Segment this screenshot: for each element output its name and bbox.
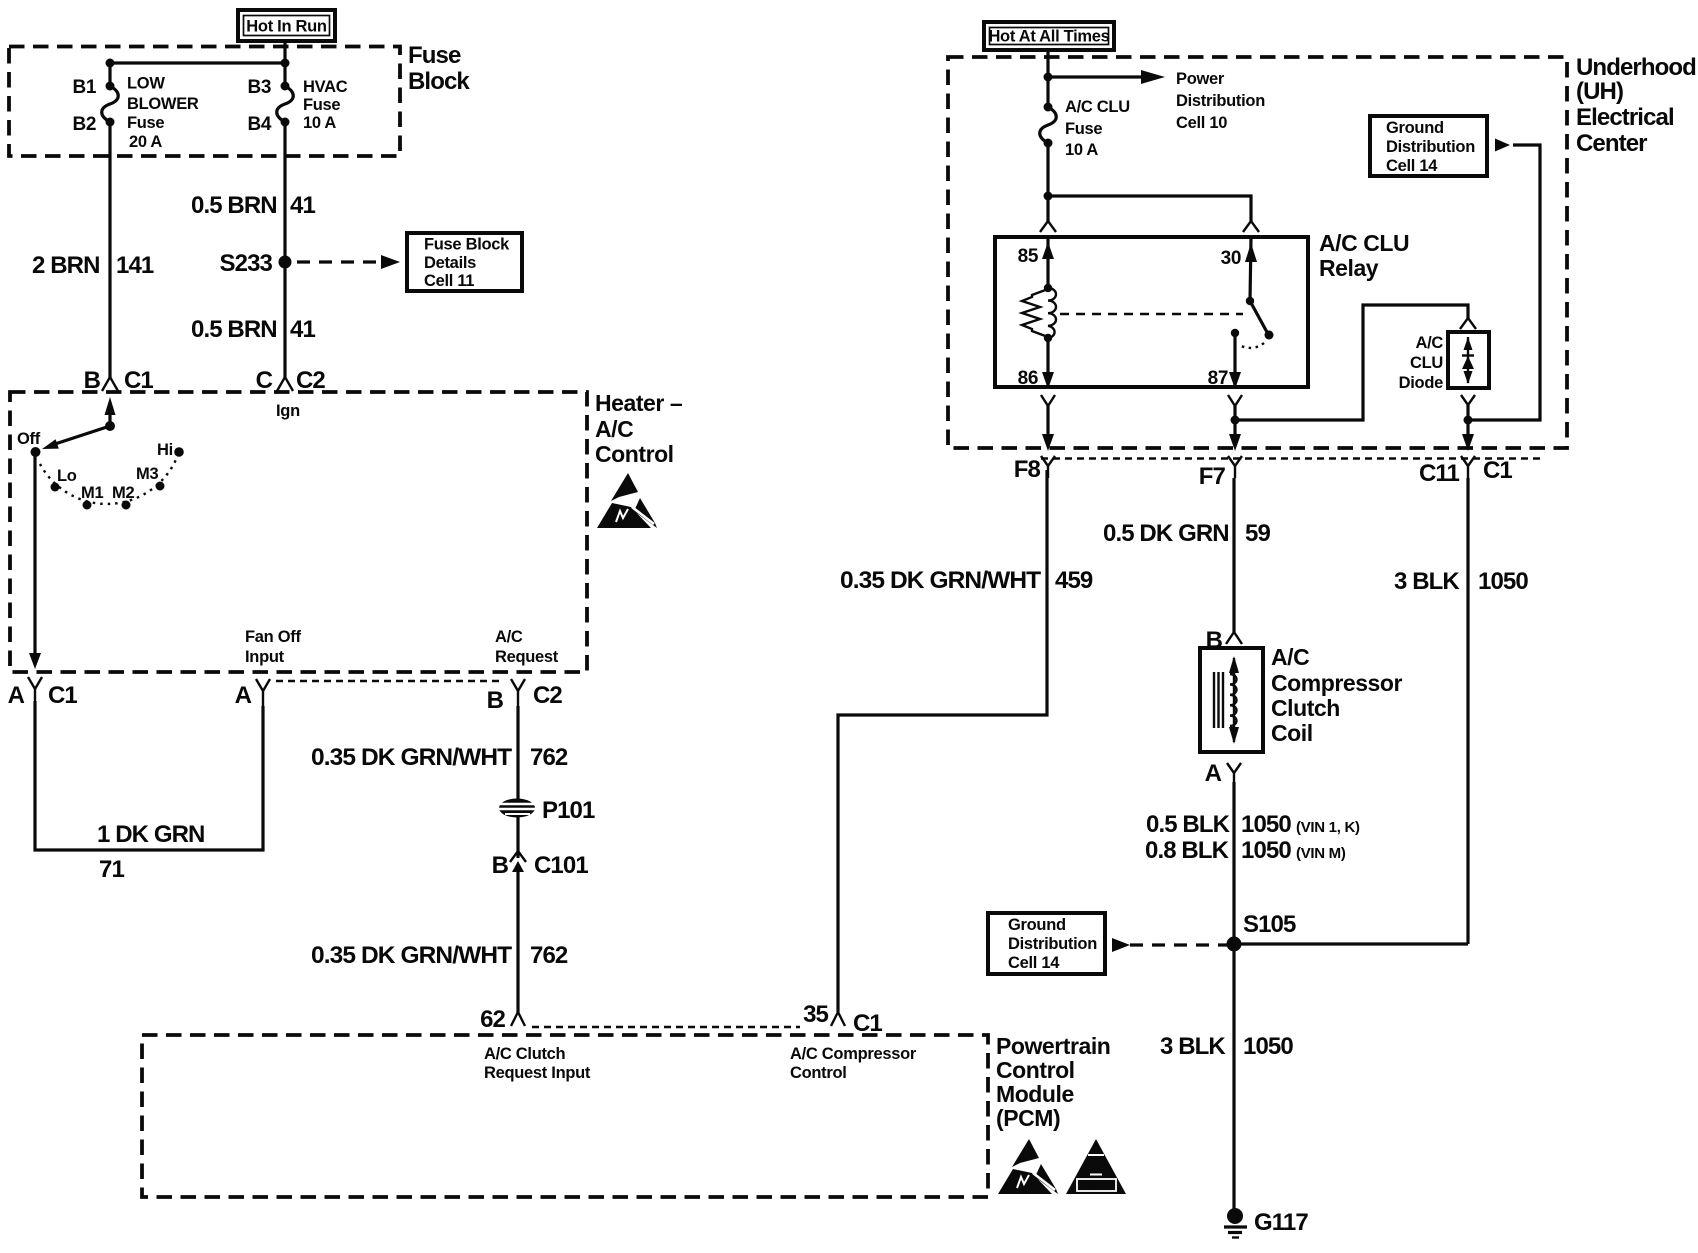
svg-text:459: 459 xyxy=(1055,567,1093,594)
svg-text:Distribution: Distribution xyxy=(1176,92,1265,110)
svg-text:F8: F8 xyxy=(1014,456,1041,483)
svg-text:59: 59 xyxy=(1245,520,1270,547)
underhood electrical center dashed box xyxy=(948,57,1567,448)
svg-text:A/C Clutch: A/C Clutch xyxy=(484,1045,566,1063)
svg-text:Electrical: Electrical xyxy=(1576,104,1674,131)
relay pin 85 with up arrow xyxy=(1018,237,1054,288)
svg-text:M1: M1 xyxy=(81,484,103,502)
heater a/c control dashed box xyxy=(10,392,587,672)
svg-text:C1: C1 xyxy=(48,682,77,709)
relay pin 30 with up arrow and switch arm xyxy=(1221,237,1274,348)
svg-text:G117: G117 xyxy=(1254,1209,1308,1236)
svg-text:A/C CLU: A/C CLU xyxy=(1065,98,1130,116)
svg-text:B4: B4 xyxy=(248,114,272,135)
svg-text:B3: B3 xyxy=(248,77,272,98)
svg-text:41: 41 xyxy=(290,316,315,343)
svg-text:0.5 BRN: 0.5 BRN xyxy=(191,192,277,219)
svg-text:Heater –: Heater – xyxy=(595,390,683,416)
svg-text:HVAC: HVAC xyxy=(303,78,348,96)
svg-text:Ign: Ign xyxy=(276,402,300,420)
svg-text:2 BRN: 2 BRN xyxy=(32,252,100,279)
connector chevron above diode xyxy=(1460,318,1476,329)
wire B4 down to connector C2 xyxy=(283,122,286,378)
wire from Hot In Run down to fuse bus xyxy=(283,39,286,63)
svg-text:Control: Control xyxy=(996,1057,1075,1083)
svg-text:Block: Block xyxy=(408,68,470,95)
svg-text:1050: 1050 xyxy=(1243,1033,1293,1060)
svg-text:Clutch: Clutch xyxy=(1271,695,1340,721)
ESD warning icon (PCM) xyxy=(998,1139,1058,1194)
wire bus inside fuse block xyxy=(110,61,285,64)
svg-text:Ground: Ground xyxy=(1386,119,1444,137)
svg-text:0.35 DK GRN/WHT: 0.35 DK GRN/WHT xyxy=(840,567,1041,594)
connector B above coil xyxy=(1206,627,1242,654)
svg-text:Fuse: Fuse xyxy=(1065,120,1102,138)
svg-text:LOW: LOW xyxy=(127,75,165,93)
svg-text:C: C xyxy=(256,367,273,394)
svg-text:C11: C11 xyxy=(1419,460,1460,487)
relay coil with parallel resistor xyxy=(1022,284,1056,342)
svg-text:(VIN 1, K): (VIN 1, K) xyxy=(1296,819,1360,836)
svg-text:85: 85 xyxy=(1018,246,1039,267)
wire C2 down to P101 xyxy=(516,706,519,800)
svg-text:Distribution: Distribution xyxy=(1386,138,1475,156)
svg-text:Cell 14: Cell 14 xyxy=(1008,954,1060,972)
svg-text:Request Input: Request Input xyxy=(484,1064,591,1082)
connector C C2 (heater box top) xyxy=(256,367,326,394)
wire F7 down to clutch coil xyxy=(1232,478,1235,632)
svg-text:OBD II: OBD II xyxy=(1082,1181,1111,1192)
svg-text:C101: C101 xyxy=(534,852,588,879)
relay pin 87 with down arrow xyxy=(1208,329,1241,389)
svg-text:141: 141 xyxy=(116,252,154,279)
node junction dots on bus xyxy=(106,59,115,68)
wire S105 to C1 drop xyxy=(1234,942,1468,945)
PCM dashed box xyxy=(142,1035,988,1197)
svg-text:Fuse: Fuse xyxy=(408,42,461,69)
wire C1 down to S105 xyxy=(1466,478,1469,944)
dashed arrow to Fuse Block Details xyxy=(297,260,382,263)
svg-text:C2: C2 xyxy=(296,367,325,394)
svg-text:Center: Center xyxy=(1576,130,1647,157)
connector F7 xyxy=(1199,456,1242,490)
svg-text:CLU: CLU xyxy=(1410,354,1443,372)
svg-text:(VIN M): (VIN M) xyxy=(1296,845,1346,862)
relay pin 86 with down arrow xyxy=(1018,338,1054,389)
svg-text:86: 86 xyxy=(1018,368,1038,389)
svg-text:Request: Request xyxy=(495,648,559,666)
pin 35 C1 connector xyxy=(803,1001,882,1037)
svg-text:762: 762 xyxy=(530,942,568,969)
node junction to power distribution xyxy=(1044,73,1053,82)
svg-text:Hot In Run: Hot In Run xyxy=(246,18,327,36)
connector C101 xyxy=(492,851,589,879)
svg-text:Coil: Coil xyxy=(1271,720,1313,746)
svg-text:3 BLK: 3 BLK xyxy=(1394,568,1460,595)
svg-text:S233: S233 xyxy=(220,250,273,277)
connector B C2 (heater bottom right) xyxy=(487,628,563,714)
node junction below diode xyxy=(1464,416,1473,425)
blower switch arm to Off xyxy=(42,426,110,449)
svg-text:1050: 1050 xyxy=(1478,568,1528,595)
svg-text:C1: C1 xyxy=(124,367,153,394)
svg-text:C1: C1 xyxy=(853,1010,882,1037)
connector A below coil xyxy=(1205,760,1241,787)
svg-text:A: A xyxy=(1205,760,1222,787)
svg-text:(PCM): (PCM) xyxy=(996,1105,1060,1131)
connector chevron above relay pin 30 xyxy=(1243,221,1259,232)
svg-text:0.5 BRN: 0.5 BRN xyxy=(191,316,277,343)
wire Off down to connector A with arrow xyxy=(29,452,41,669)
svg-text:F7: F7 xyxy=(1199,463,1226,490)
svg-text:Input: Input xyxy=(245,648,285,666)
svg-text:Cell 10: Cell 10 xyxy=(1176,114,1227,132)
dashed arrow Ground Distribution to S105 xyxy=(1112,938,1130,952)
note box Ground Distribution Cell 14 (upper) xyxy=(1370,116,1487,176)
pin 62 connector xyxy=(480,1006,525,1033)
dotted switch arc with contacts xyxy=(40,441,184,510)
svg-text:Fuse Block: Fuse Block xyxy=(424,236,510,254)
label box "Hot In Run" xyxy=(238,10,335,41)
splice S233 xyxy=(279,256,292,269)
connector A (Fan Off Input) xyxy=(235,628,302,709)
svg-text:A/C: A/C xyxy=(495,628,523,646)
svg-text:B1: B1 xyxy=(73,77,97,98)
thin dotted connector line below underhood box xyxy=(1041,457,1540,459)
wire P101 down to C101 xyxy=(516,817,519,858)
svg-text:0.8 BLK: 0.8 BLK xyxy=(1145,837,1230,864)
svg-text:3 BLK: 3 BLK xyxy=(1160,1033,1226,1060)
svg-text:Cell 11: Cell 11 xyxy=(424,272,474,290)
wire 0.35 DK GRN/WHT 459 from pin 35 up to F8 xyxy=(838,470,1047,1012)
svg-text:A/C: A/C xyxy=(1271,644,1309,670)
svg-text:A/C Compressor: A/C Compressor xyxy=(790,1045,917,1063)
fuse block dashed box xyxy=(9,47,400,157)
svg-text:35: 35 xyxy=(803,1001,828,1028)
svg-text:Details: Details xyxy=(424,254,476,272)
ground wire from diode junction to Ground Distribution arrow xyxy=(1468,145,1540,420)
svg-text:Fuse: Fuse xyxy=(303,96,340,114)
A/C compressor clutch coil box xyxy=(1200,648,1263,752)
connector chevrons below relay (86, 87) xyxy=(1041,395,1055,451)
fuse HVAC 10A (B3-B4) xyxy=(248,77,348,135)
svg-text:A/C: A/C xyxy=(1415,334,1443,352)
svg-text:B: B xyxy=(487,687,504,714)
svg-text:Fan Off: Fan Off xyxy=(245,628,301,646)
svg-text:A/C: A/C xyxy=(595,416,633,442)
blower switch common wire with up arrow to pin B xyxy=(105,397,116,431)
note box Fuse Block Details Cell 11 xyxy=(407,233,522,291)
svg-text:Hot At All Times: Hot At All Times xyxy=(988,28,1109,46)
arrow to Power Distribution xyxy=(1048,70,1265,132)
OBD II warning icon xyxy=(1066,1139,1126,1194)
svg-text:Distribution: Distribution xyxy=(1008,935,1097,953)
connector C11 C1 xyxy=(1419,456,1512,487)
svg-text:A: A xyxy=(235,682,252,709)
svg-text:0.35 DK GRN/WHT: 0.35 DK GRN/WHT xyxy=(311,942,512,969)
svg-text:(UH): (UH) xyxy=(1576,78,1623,105)
svg-text:1 DK GRN: 1 DK GRN xyxy=(97,821,204,848)
svg-text:Underhood: Underhood xyxy=(1576,54,1696,81)
svg-text:20 A: 20 A xyxy=(129,133,162,151)
svg-text:Module: Module xyxy=(996,1081,1074,1107)
svg-text:62: 62 xyxy=(480,1006,505,1033)
connector F8 xyxy=(1014,456,1055,483)
svg-text:0.5 DK GRN: 0.5 DK GRN xyxy=(1103,520,1229,547)
svg-text:Diode: Diode xyxy=(1399,374,1443,392)
wire branch to relay pin 30 xyxy=(1048,196,1251,223)
svg-text:B2: B2 xyxy=(73,114,97,135)
svg-text:1050: 1050 xyxy=(1241,811,1291,838)
note box Ground Distribution Cell 14 (lower) xyxy=(988,913,1105,974)
wire from Hot At All Times down xyxy=(1046,50,1049,107)
svg-text:Cell 14: Cell 14 xyxy=(1386,157,1438,175)
svg-text:C1: C1 xyxy=(1483,457,1512,484)
svg-text:10 A: 10 A xyxy=(1065,141,1098,159)
splice S105 xyxy=(1227,937,1242,952)
diode box A/C CLU Diode xyxy=(1399,332,1489,392)
ground G117 xyxy=(1224,1208,1308,1238)
svg-text:0.5 BLK: 0.5 BLK xyxy=(1146,811,1231,838)
svg-text:Power: Power xyxy=(1176,70,1225,88)
svg-text:S105: S105 xyxy=(1243,911,1296,938)
svg-text:Control: Control xyxy=(595,441,674,467)
node junction on 87 drop xyxy=(1231,416,1240,425)
svg-text:Fuse: Fuse xyxy=(127,114,164,132)
svg-text:30: 30 xyxy=(1221,248,1241,269)
thin dotted connector line C1 (PCM) xyxy=(532,1026,800,1028)
svg-text:Off: Off xyxy=(17,430,41,448)
svg-text:II: II xyxy=(1092,1159,1100,1175)
wire coil A down to S105 xyxy=(1232,782,1235,1211)
splice pass-through P101 xyxy=(499,797,595,824)
svg-text:M2: M2 xyxy=(112,484,134,502)
svg-text:Control: Control xyxy=(790,1064,847,1082)
svg-text:71: 71 xyxy=(99,856,124,883)
wire fuse down to branch junction xyxy=(1046,143,1049,223)
relay dashed actuation link xyxy=(1060,313,1243,315)
svg-text:Hi: Hi xyxy=(157,441,173,459)
label box "Hot At All Times" xyxy=(984,22,1114,50)
svg-text:0.35 DK GRN/WHT: 0.35 DK GRN/WHT xyxy=(311,744,512,771)
svg-text:Ground: Ground xyxy=(1008,916,1066,934)
ESD warning icon (heater) xyxy=(597,473,657,528)
svg-text:Relay: Relay xyxy=(1319,255,1379,281)
svg-text:BLOWER: BLOWER xyxy=(127,95,199,113)
fuse LOW BLOWER 20A (B1-B2) xyxy=(73,75,199,152)
svg-text:1050: 1050 xyxy=(1241,837,1291,864)
relay box xyxy=(995,237,1308,387)
svg-text:Lo: Lo xyxy=(57,467,77,485)
svg-text:A: A xyxy=(8,682,25,709)
wire C101 down to PCM pin 62 xyxy=(516,868,519,1013)
svg-text:P101: P101 xyxy=(542,797,595,824)
connector B C1 (heater box top) xyxy=(84,367,154,394)
svg-text:M3: M3 xyxy=(136,465,158,483)
svg-text:Compressor: Compressor xyxy=(1271,670,1402,696)
Off contact xyxy=(31,447,41,457)
fuse A/C CLU 10A xyxy=(1040,98,1130,159)
svg-text:87: 87 xyxy=(1208,368,1228,389)
connector chevron above relay pin 85 xyxy=(1040,221,1056,232)
wire 87 to diode xyxy=(1235,305,1468,420)
svg-text:10 A: 10 A xyxy=(303,114,336,132)
connector Y below diode xyxy=(1461,395,1475,451)
svg-text:B: B xyxy=(84,367,101,394)
svg-text:762: 762 xyxy=(530,744,568,771)
svg-text:B: B xyxy=(492,852,509,879)
thin dotted connector line C2 xyxy=(276,680,503,682)
wire B2 down to connector C1 xyxy=(108,122,111,378)
wire 1 DK GRN 71 xyxy=(35,701,263,883)
connector A C1 (heater bottom left) xyxy=(8,677,78,709)
svg-text:41: 41 xyxy=(290,192,315,219)
svg-text:Powertrain: Powertrain xyxy=(996,1033,1110,1059)
svg-text:A/C CLU: A/C CLU xyxy=(1319,230,1409,256)
svg-text:C2: C2 xyxy=(533,682,562,709)
